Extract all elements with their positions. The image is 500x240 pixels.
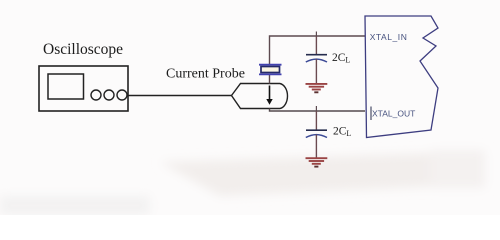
svg-text:Current Probe: Current Probe [166, 66, 245, 81]
pin tick XTAL_OUT [370, 107, 372, 121]
wire rail to capacitor C2 [315, 111, 317, 130]
knob 3 [117, 90, 127, 100]
svg-text:XTAL_OUT: XTAL_OUT [372, 109, 415, 119]
wire rail to capacitor C1 [315, 36, 317, 55]
wire capacitor C2 to ground [315, 135, 317, 159]
current probe body [232, 84, 288, 109]
probe current arrow [266, 86, 272, 105]
oscilloscope body [39, 66, 128, 111]
wire top rail XTAL_IN [270, 36, 366, 64]
IC U1 body [365, 16, 438, 138]
capacitor C1 (2CL) [306, 55, 327, 62]
wire crystal to probe [269, 75, 271, 84]
junction tick bottom [315, 106, 317, 111]
svg-text:Oscilloscope: Oscilloscope [43, 41, 123, 58]
ground top [306, 84, 328, 92]
junction tick top [315, 32, 317, 37]
oscilloscope screen [48, 74, 84, 99]
capacitor C2 (2CL) [306, 130, 327, 137]
crystal Y1 [259, 65, 282, 75]
wire capacitor C1 to ground [315, 59, 317, 84]
knob 2 [104, 90, 114, 100]
svg-text:XTAL_IN: XTAL_IN [370, 32, 408, 42]
knob 1 [91, 90, 101, 100]
wire probe exit to XTAL_OUT [270, 109, 366, 112]
wire scope to probe [128, 95, 232, 97]
ground bottom [306, 158, 328, 166]
